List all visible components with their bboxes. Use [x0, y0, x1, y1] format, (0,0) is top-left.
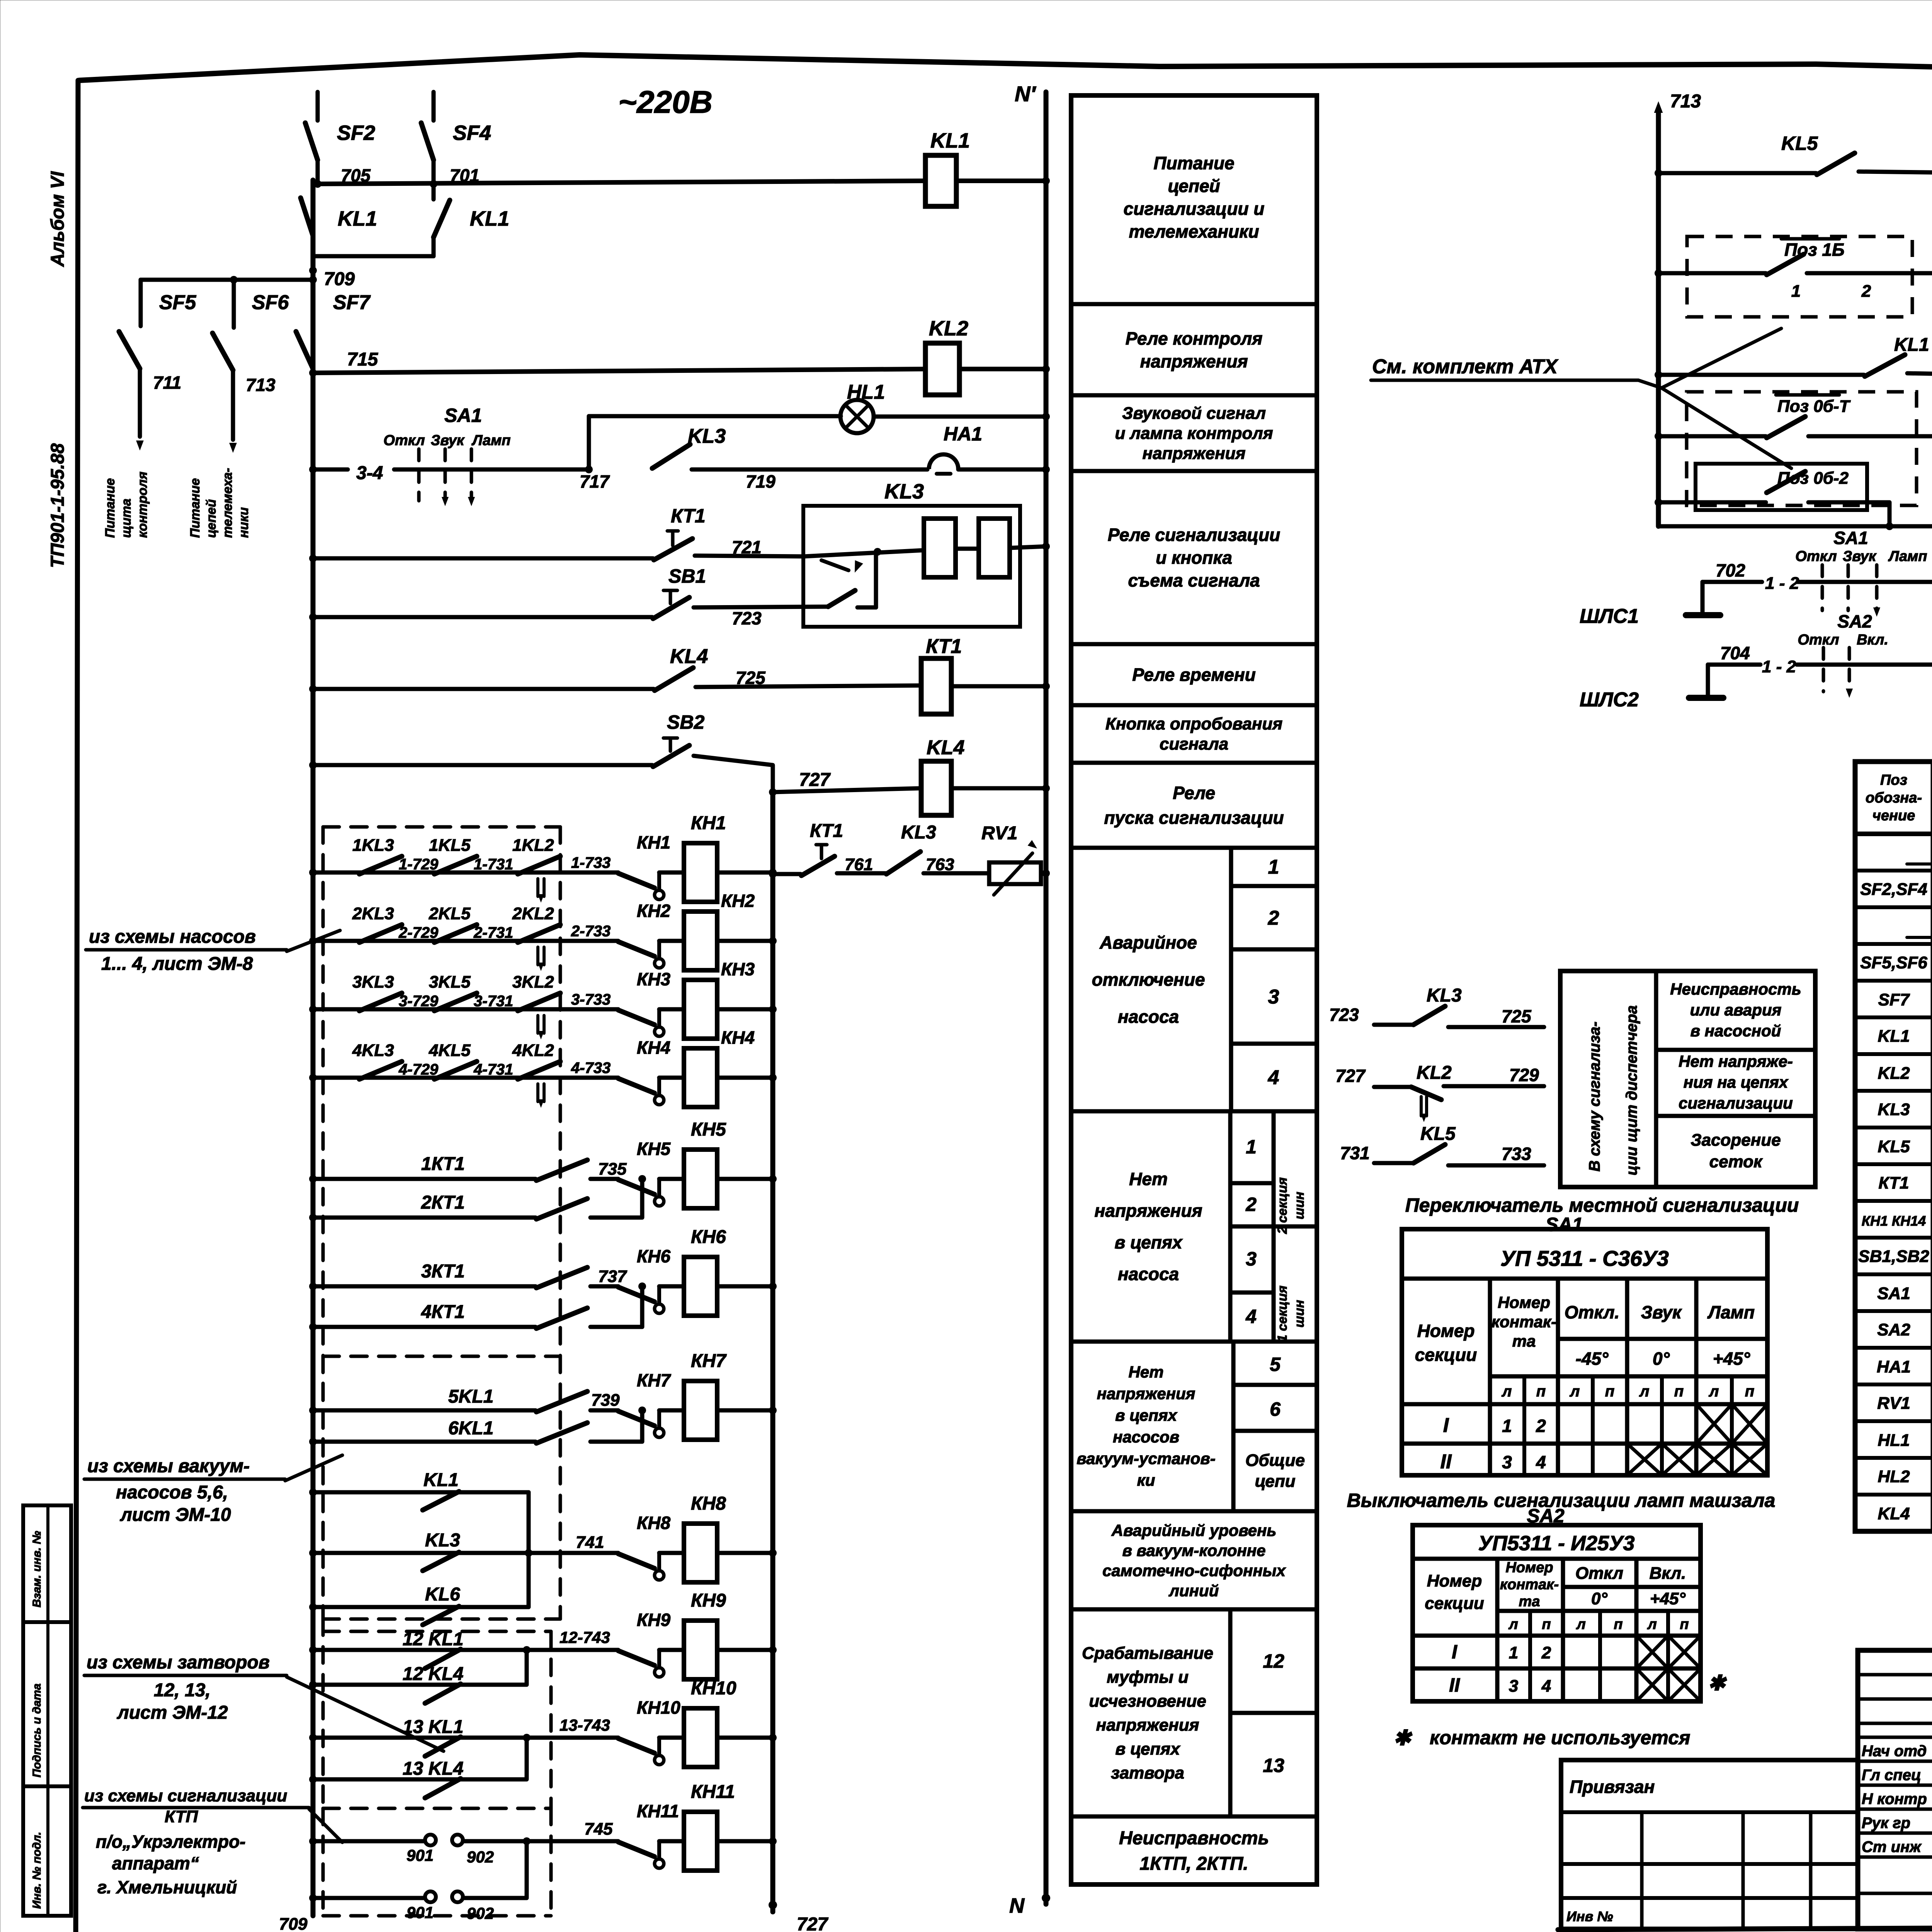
svg-text:Ламп: Ламп — [1888, 548, 1927, 565]
svg-text:✱: ✱ — [1393, 1726, 1413, 1750]
feeder note: Питание цепей телемеханики — [188, 468, 251, 538]
relay coil KT1 — [921, 635, 962, 714]
wire КН1 coil to bus — [717, 871, 773, 875]
svg-text:5KL1: 5KL1 — [448, 1386, 493, 1407]
svg-text:и кнопка: и кнопка — [1156, 548, 1232, 568]
table row КН1 КН14 — [1862, 1209, 1932, 1230]
SA1 row II — [1440, 1451, 1546, 1473]
svg-text:2 секция: 2 секция — [1275, 1177, 1290, 1234]
svg-text:контак-: контак- — [1492, 1313, 1556, 1331]
contact KL3 (RV1 rung) — [886, 822, 936, 874]
bus ШЛС2 — [1580, 643, 1932, 711]
contact KL1 (right, under SF4) — [434, 184, 509, 256]
svg-text:КН10: КН10 — [691, 1678, 736, 1699]
header: Выключатель сигнализации ламп машзала SA2 — [1347, 1490, 1776, 1527]
svg-text:HL1: HL1 — [847, 381, 885, 403]
contact KL1 (left, under SF2) — [301, 198, 377, 236]
svg-text:л: л — [1709, 1383, 1719, 1400]
svg-text:КТ1: КТ1 — [1879, 1173, 1909, 1192]
node junction 717 — [585, 466, 593, 473]
svg-text:в вакуум-колонне: в вакуум-колонне — [1122, 1541, 1265, 1560]
svg-text:HA1: HA1 — [944, 423, 982, 445]
relay coil KL4 — [921, 736, 964, 815]
svg-text:1 секция: 1 секция — [1275, 1286, 1290, 1342]
SA1 crosses row II (Звук, Ламп) — [1627, 1444, 1662, 1475]
svg-text:737: 737 — [598, 1267, 628, 1286]
svg-text:RV1: RV1 — [981, 823, 1017, 844]
svg-text:4: 4 — [1268, 1066, 1279, 1089]
svg-text:КТ1: КТ1 — [810, 821, 843, 841]
svg-text:KL5: KL5 — [1420, 1124, 1456, 1144]
svg-text:13-743: 13-743 — [560, 1716, 610, 1734]
svg-text:напряжения: напряжения — [1097, 1384, 1196, 1403]
svg-text:Неисправность: Неисправность — [1119, 1828, 1269, 1849]
svg-text:HL1: HL1 — [1878, 1431, 1910, 1450]
wire between coils — [956, 547, 979, 551]
relay coil КН10 — [684, 1678, 736, 1767]
svg-text:12 KL4: 12 KL4 — [403, 1664, 463, 1684]
wire SF5/SF6/SF7 feeder — [141, 278, 313, 282]
svg-text:телемеха-: телемеха- — [220, 468, 235, 538]
relay KL3 latching box — [803, 480, 1020, 627]
wire KL2 to N — [959, 367, 1046, 371]
wire 721 — [695, 537, 804, 557]
svg-text:SF2: SF2 — [337, 121, 375, 145]
svg-text:Засорение: Засорение — [1690, 1131, 1781, 1150]
svg-text:напряжения: напряжения — [1094, 1201, 1202, 1221]
svg-text:4: 4 — [1245, 1306, 1257, 1327]
svg-text:КН11: КН11 — [637, 1801, 679, 1821]
svg-text:733: 733 — [1502, 1144, 1531, 1164]
contact КН1 — [618, 832, 684, 900]
svg-text:КН6: КН6 — [691, 1227, 726, 1247]
svg-text:N′: N′ — [1015, 82, 1036, 106]
table row KL2 — [1878, 1063, 1932, 1083]
svg-text:КН5: КН5 — [637, 1139, 671, 1159]
svg-text:KL6: KL6 — [425, 1584, 460, 1605]
svg-text:902: 902 — [467, 1848, 494, 1866]
svg-text:KL5: KL5 — [1878, 1137, 1910, 1156]
lamp HL1 — [840, 381, 885, 433]
wire КН3 coil to bus — [717, 1007, 773, 1012]
box Привязан — [1561, 1760, 1858, 1929]
wire КН4 coil to bus — [717, 1076, 773, 1080]
note: контакт не используется — [1393, 1726, 1690, 1750]
svg-text:съема сигнала: съема сигнала — [1128, 570, 1260, 590]
svg-text:4: 4 — [1541, 1677, 1551, 1696]
wire KL3 to N — [1010, 546, 1046, 548]
table row KL5 — [1878, 1136, 1932, 1156]
svg-text:1-731: 1-731 — [474, 856, 513, 873]
svg-text:4КТ1: 4КТ1 — [421, 1302, 465, 1322]
svg-text:Гл спец: Гл спец — [1862, 1767, 1921, 1784]
table row HL1 — [1878, 1425, 1932, 1458]
svg-text:лист ЭМ-12: лист ЭМ-12 — [117, 1702, 228, 1723]
dashed group box (gate valves) — [323, 1619, 551, 1808]
svg-text:контак-: контак- — [1500, 1577, 1559, 1593]
contact 2KL2 — [512, 904, 560, 971]
svg-text:КН2: КН2 — [637, 901, 670, 921]
button SB2 — [309, 711, 704, 769]
svg-text:КН10: КН10 — [637, 1697, 680, 1718]
svg-text:Нач отд: Нач отд — [1862, 1743, 1927, 1760]
svg-text:Аварийный уровень: Аварийный уровень — [1111, 1521, 1277, 1539]
table row SB1,SB2 — [1858, 1246, 1932, 1266]
svg-text:II: II — [1449, 1674, 1460, 1696]
svg-text:4KL3: 4KL3 — [352, 1041, 394, 1060]
wire 12-743 — [527, 1628, 618, 1650]
svg-text:насосов: насосов — [1113, 1428, 1179, 1446]
svg-text:KL1: KL1 — [338, 207, 377, 230]
svg-text:713: 713 — [246, 375, 276, 395]
svg-text:702: 702 — [1716, 560, 1745, 580]
svg-text:2-731: 2-731 — [473, 924, 513, 941]
svg-text:Откл: Откл — [1575, 1564, 1623, 1583]
N' rail (right neutral rail of left ladder) — [1044, 92, 1049, 1904]
note: из схемы вакуум-насосов 5,6 лист ЭМ-10 — [84, 1455, 342, 1525]
wire rung 1 (705/701 to KL1 coil) — [313, 181, 925, 184]
svg-text:Переключатель местной сигнал: Переключатель местной сигнализации — [1405, 1194, 1799, 1216]
note: из схемы насосов 1...4 лист ЭМ-8 — [86, 927, 340, 974]
switch SA2 marks (704) — [1798, 611, 1888, 698]
component list table — [1855, 762, 1932, 1531]
svg-text:715: 715 — [347, 349, 378, 370]
note: из схемы сигнализации КТП — [83, 1786, 342, 1842]
svg-text:3КТ1: 3КТ1 — [421, 1261, 465, 1282]
svg-text:КН8: КН8 — [637, 1513, 670, 1533]
svg-text:KL3: KL3 — [1427, 985, 1462, 1006]
svg-text:Откл: Откл — [1798, 632, 1839, 648]
wire 761 — [837, 855, 886, 874]
contact KL1 (751 rung) — [1655, 335, 1929, 379]
wire inside KL3 box — [804, 550, 923, 556]
svg-text:КТ1: КТ1 — [671, 505, 706, 527]
contact Поз1Б (level switch) — [1655, 254, 1932, 301]
svg-text:Питание: Питание — [1153, 153, 1234, 173]
svg-text:Вкл.: Вкл. — [1857, 632, 1888, 648]
breaker SF2 — [305, 92, 375, 184]
svg-text:КТ1: КТ1 — [926, 635, 962, 658]
wire rung 4-ladder — [309, 1074, 317, 1082]
svg-text:КН11: КН11 — [691, 1782, 735, 1802]
svg-text:13: 13 — [1263, 1755, 1284, 1776]
svg-text:3: 3 — [1246, 1248, 1257, 1270]
svg-text:п/о„Укрэлектро-: п/о„Укрэлектро- — [96, 1832, 246, 1852]
contact КН9 — [618, 1610, 684, 1677]
svg-text:насоса: насоса — [1118, 1264, 1179, 1284]
svg-text:в насосной: в насосной — [1690, 1022, 1781, 1040]
svg-text:та: та — [1512, 1332, 1536, 1350]
svg-text:чение: чение — [1872, 808, 1915, 824]
svg-text:727: 727 — [1335, 1066, 1366, 1086]
svg-text:713: 713 — [1670, 91, 1701, 112]
svg-text:контакт не используется: контакт не используется — [1430, 1727, 1690, 1748]
svg-text:719: 719 — [746, 471, 776, 492]
dashed box around 745 group — [323, 1808, 551, 1916]
relay coil КН6 — [684, 1227, 726, 1316]
svg-text:3: 3 — [1502, 1452, 1512, 1472]
svg-text:N: N — [1009, 1894, 1025, 1917]
svg-text:сигнализации и: сигнализации и — [1124, 199, 1265, 219]
svg-text:исчезновение: исчезновение — [1089, 1692, 1206, 1711]
svg-text:3KL2: 3KL2 — [512, 973, 554, 992]
contact КН4 — [618, 1037, 684, 1105]
svg-text:2: 2 — [1536, 1416, 1546, 1436]
svg-text:и лампа контроля: и лампа контроля — [1115, 424, 1273, 443]
svg-text:Ламп: Ламп — [471, 432, 510, 449]
svg-text:Реле контроля: Реле контроля — [1126, 328, 1263, 349]
svg-text:711: 711 — [153, 372, 181, 393]
resistor RV1 (variable) — [981, 823, 1041, 895]
box: В схему сигнализации щит диспетчера — [1560, 971, 1815, 1187]
relay coil KL2 — [925, 317, 968, 395]
relay coil КН9 — [684, 1590, 726, 1679]
svg-text:п: п — [1614, 1616, 1622, 1633]
svg-text:Кнопка опробования: Кнопка опробования — [1105, 714, 1282, 733]
svg-text:✱: ✱ — [1708, 1672, 1727, 1695]
contact KL3 (rung 3-4) — [652, 425, 726, 468]
svg-text:КН2: КН2 — [721, 891, 755, 911]
svg-text:Номер: Номер — [1498, 1293, 1550, 1311]
svg-text:3: 3 — [1509, 1677, 1518, 1696]
svg-text:контроля: контроля — [135, 472, 150, 538]
svg-text:Аварийное: Аварийное — [1099, 932, 1197, 952]
relay coil КН7 — [684, 1351, 727, 1440]
svg-text:709: 709 — [324, 269, 355, 289]
svg-text:SF7: SF7 — [1878, 990, 1910, 1009]
contact 3KT1 — [309, 1261, 587, 1290]
svg-text:Поз 0б-Т: Поз 0б-Т — [1777, 397, 1851, 416]
svg-text:KL3: KL3 — [425, 1530, 460, 1551]
relay coil КН11 — [684, 1782, 735, 1871]
svg-text:напряжения: напряжения — [1143, 444, 1246, 463]
stamp column (Взам.инв № / Подпись и дата / Инв.№ подл.) — [23, 1505, 71, 1916]
svg-text:Подпись и дата: Подпись и дата — [31, 1684, 43, 1777]
node N bottom — [1009, 1894, 1050, 1917]
latch pawl arrow — [821, 560, 849, 570]
svg-text:1: 1 — [1268, 856, 1279, 878]
wire 751 — [1907, 352, 1932, 375]
relay coil КН2 — [684, 891, 755, 970]
contact КН5 — [618, 1139, 684, 1206]
relay coil KL3a — [924, 519, 956, 577]
table row SF5,SF6 — [1860, 952, 1932, 972]
contact 4KL5 — [429, 1041, 477, 1079]
svg-text:Общие: Общие — [1245, 1451, 1305, 1470]
svg-text:KL4: KL4 — [1878, 1504, 1910, 1523]
svg-text:745: 745 — [584, 1820, 613, 1838]
svg-text:SA1: SA1 — [444, 405, 482, 426]
wire KT1 to N — [951, 684, 1046, 689]
contact 12KL1 — [309, 1629, 527, 1668]
wire 725 — [696, 668, 921, 688]
svg-text:KL3: KL3 — [884, 480, 924, 503]
node 709 — [309, 267, 317, 274]
svg-text:КН1: КН1 — [637, 832, 670, 852]
svg-text:Реле времени: Реле времени — [1132, 665, 1256, 685]
svg-text:Нет: Нет — [1129, 1169, 1168, 1189]
svg-text:0°: 0° — [1653, 1349, 1670, 1369]
contact 4KL3 — [352, 1041, 402, 1079]
svg-text:Номер: Номер — [1427, 1571, 1482, 1590]
svg-text:Питание: Питание — [188, 478, 202, 538]
svg-text:из схемы затворов: из схемы затворов — [87, 1652, 270, 1673]
SA2 header texts — [1425, 1560, 1689, 1633]
svg-text:щита: щита — [119, 498, 134, 538]
svg-text:Нет: Нет — [1128, 1363, 1163, 1381]
svg-text:1-729: 1-729 — [399, 856, 439, 873]
svg-text:KL5: KL5 — [1781, 133, 1818, 154]
svg-text:727: 727 — [797, 1914, 828, 1932]
svg-text:12, 13,: 12, 13, — [154, 1680, 211, 1701]
svg-text:704: 704 — [1720, 643, 1750, 663]
svg-text:лист ЭМ-10: лист ЭМ-10 — [120, 1505, 231, 1525]
svg-text:735: 735 — [598, 1160, 627, 1179]
svg-text:См. комплект АТХ: См. комплект АТХ — [1372, 355, 1559, 378]
svg-text:КН3: КН3 — [721, 959, 755, 979]
signature rows — [1862, 1743, 1932, 1855]
rail 713 — [1654, 91, 1701, 526]
svg-text:Откл.: Откл. — [1565, 1302, 1620, 1322]
svg-text:902: 902 — [467, 1904, 494, 1922]
svg-text:SF6: SF6 — [252, 291, 289, 314]
switch SA1 marks (702) — [1795, 528, 1927, 617]
bus 727 vertical — [770, 792, 776, 1912]
svg-text:вакуум-установ-: вакуум-установ- — [1077, 1449, 1216, 1468]
contact 12KL4 (parallel) — [309, 1646, 531, 1703]
svg-text:12-743: 12-743 — [560, 1628, 610, 1646]
svg-text:Поз 1Б: Поз 1Б — [1784, 240, 1845, 260]
svg-text:п: п — [1745, 1383, 1754, 1400]
svg-text:723: 723 — [1329, 1005, 1359, 1025]
svg-text:л: л — [1647, 1616, 1657, 1633]
svg-text:12: 12 — [1263, 1650, 1284, 1672]
svg-text:HA1: HA1 — [1877, 1357, 1911, 1376]
contact KL5 (to dispatcher) — [1340, 1124, 1544, 1165]
wire 723 — [694, 607, 828, 628]
wire 13-743 — [527, 1716, 618, 1738]
svg-text:Ст инж: Ст инж — [1862, 1838, 1922, 1855]
svg-text:4-731: 4-731 — [473, 1061, 513, 1078]
svg-text:л: л — [1508, 1616, 1518, 1633]
svg-text:КН8: КН8 — [691, 1493, 726, 1514]
svg-text:КН6: КН6 — [637, 1246, 670, 1266]
SA1 row I — [1443, 1414, 1546, 1437]
svg-text:Звуковой сигнал: Звуковой сигнал — [1122, 404, 1266, 423]
svg-text:та: та — [1519, 1594, 1540, 1610]
svg-text:самотечно-сифонных: самотечно-сифонных — [1102, 1561, 1286, 1580]
contact KT1 (time) — [309, 505, 706, 562]
svg-text:ния на цепях: ния на цепях — [1684, 1073, 1789, 1091]
svg-text:4: 4 — [1536, 1452, 1546, 1472]
SA1 header texts — [1415, 1293, 1755, 1400]
svg-text:Реле: Реле — [1173, 783, 1215, 803]
contact KL5 (747 rung) — [1655, 133, 1855, 177]
svg-text:отключение: отключение — [1092, 969, 1205, 990]
wire КН10 coil to bus — [717, 1736, 773, 1740]
svg-text:KL3: KL3 — [901, 822, 936, 843]
svg-text:п: п — [1680, 1616, 1689, 1633]
wire branch to HL1 — [587, 416, 591, 469]
wire KL1 coil to N — [956, 179, 1046, 183]
wire КН5 coil to bus — [717, 1177, 773, 1181]
wire 735 — [590, 1160, 627, 1179]
svg-text:Откл: Откл — [383, 432, 425, 449]
wire 715 — [309, 349, 925, 377]
note: См. комплект АТХ — [1371, 328, 1791, 468]
relay coil KL1 — [925, 129, 970, 206]
svg-text:SA2: SA2 — [1877, 1320, 1910, 1339]
table row SF2,SF4 — [1860, 879, 1932, 899]
svg-text:4KL2: 4KL2 — [512, 1041, 554, 1060]
wire 727 — [773, 770, 921, 792]
svg-text:SF4: SF4 — [453, 121, 491, 145]
relay coil КН3 — [684, 959, 755, 1039]
table row RV1 — [1877, 1393, 1932, 1413]
svg-text:3-731: 3-731 — [474, 993, 513, 1010]
switch table SA1 (УП 5311-С36У3) — [1402, 1229, 1767, 1475]
svg-text:ШЛС2: ШЛС2 — [1580, 689, 1639, 711]
contact Поз 0б-Т — [1655, 395, 1932, 440]
svg-text:KL3: KL3 — [1878, 1100, 1910, 1119]
svg-text:4-733: 4-733 — [571, 1060, 611, 1077]
SA2 row II — [1449, 1674, 1551, 1696]
svg-text:Вкл.: Вкл. — [1650, 1564, 1686, 1583]
svg-text:КН9: КН9 — [691, 1590, 726, 1611]
SA2 row I — [1452, 1641, 1551, 1663]
contact КН10 — [618, 1697, 684, 1765]
svg-text:KL3: KL3 — [688, 425, 726, 447]
contact KL1 (pump fault) — [309, 1470, 529, 1553]
svg-text:727: 727 — [799, 770, 831, 790]
wire rung 1-ladder — [309, 869, 317, 876]
svg-text:4-729: 4-729 — [398, 1061, 439, 1078]
contact 13KL1 — [309, 1717, 527, 1756]
note: из схемы затворов 12,13 лист ЭМ-12 — [84, 1652, 444, 1751]
svg-text:насоса: насоса — [1118, 1007, 1179, 1027]
svg-text:Н контр: Н контр — [1862, 1791, 1927, 1808]
contact KT1 (RV1 rung) — [769, 821, 843, 878]
svg-text:1KL2: 1KL2 — [512, 836, 554, 855]
breaker SF5 — [119, 280, 196, 451]
svg-text:ники: ники — [236, 507, 251, 538]
svg-text:709: 709 — [279, 1915, 308, 1932]
svg-text:739: 739 — [591, 1391, 620, 1410]
svg-text:KL1: KL1 — [470, 207, 509, 230]
svg-text:2: 2 — [1861, 282, 1871, 301]
contact KL3 (to dispatcher) — [1329, 985, 1544, 1027]
contact КН8 — [618, 1513, 684, 1580]
svg-text:13 KL1: 13 KL1 — [403, 1717, 463, 1737]
svg-text:г. Хмельницкий: г. Хмельницкий — [97, 1877, 237, 1897]
wire RV1 to N — [1041, 871, 1046, 876]
relay coil KL3b — [979, 519, 1010, 577]
svg-text:1: 1 — [1509, 1643, 1518, 1662]
breaker SF6 — [213, 276, 289, 453]
middle explanation table — [1071, 95, 1317, 1884]
contact КН11 — [618, 1801, 684, 1868]
svg-text:-45°: -45° — [1576, 1349, 1609, 1369]
svg-text:телемеханики: телемеханики — [1129, 221, 1259, 241]
feeder note: Питание щита контроля — [103, 472, 150, 538]
contact КН7 — [618, 1370, 684, 1437]
switch SA1 section marks — [383, 405, 510, 506]
svg-text:цепи: цепи — [1255, 1472, 1296, 1491]
svg-text:Звук: Звук — [431, 432, 465, 449]
svg-text:ТП901-1-95.88: ТП901-1-95.88 — [48, 443, 68, 568]
contact SB1 latch inside box — [828, 552, 876, 607]
svg-text:1-733: 1-733 — [571, 854, 611, 871]
